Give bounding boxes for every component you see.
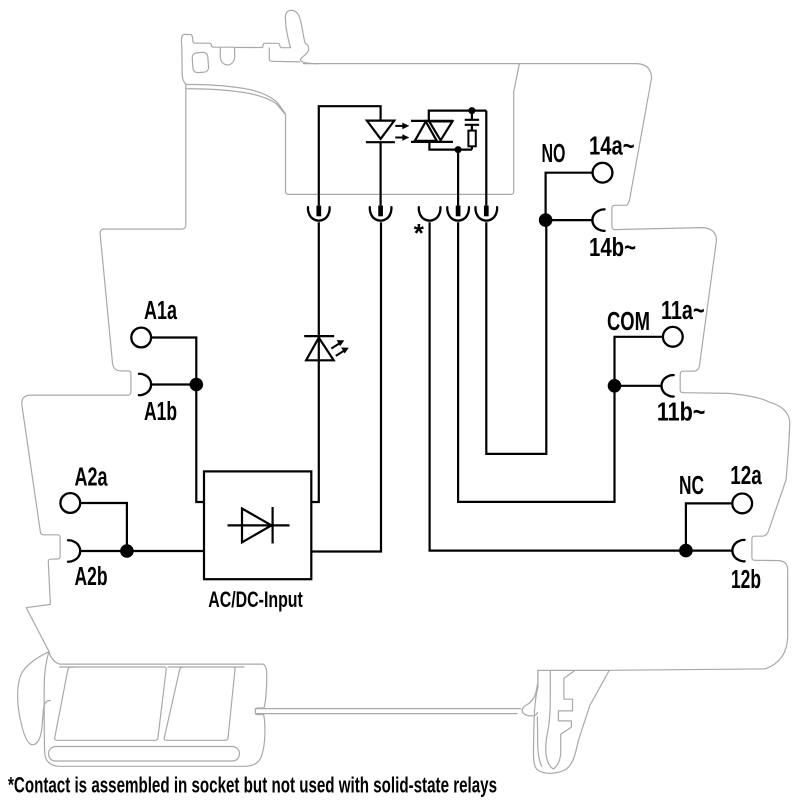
arrow opto 1 [395,125,403,127]
triac triangle down [429,121,452,140]
wire A1 junction down to AC/DC box [196,385,204,503]
svg-text:A2b: A2b [75,563,108,591]
wire triac top terminal [429,111,487,121]
triac triangle up [415,122,437,141]
terminal 11a circle [663,327,683,347]
housing: clip underside sweep curve lower [186,89,285,115]
wire AC/DC box to pin 2 [311,222,381,551]
junction snubber top [468,107,475,114]
socket contact pin 1 cup [308,207,330,220]
svg-text:12b: 12b [731,566,761,594]
svg-text:AC/DC-Input: AC/DC-Input [208,587,303,612]
terminal screw circles [60,163,752,514]
socket contact pin 5 cup [475,207,497,220]
housing: top edge [304,63,638,65]
half-cup terminals [68,209,745,561]
housing: left side profile with terminal tiers [22,84,186,651]
junction A1 [190,378,204,392]
housing: DIN clip at top of tower [181,10,318,84]
svg-text:12a: 12a [730,462,762,490]
opto LED triangle [367,121,394,139]
pin blade 4 [456,206,461,217]
wire to pin 5 from triac top [485,111,487,206]
arrow LED emit 1 [331,344,339,349]
triac bottom rail [411,141,453,143]
pin blade 5 [484,206,489,217]
SSR internal: wire pin1 up and across to opto LED [319,106,381,205]
wire NC junction to 12a [686,503,733,550]
housing: clip mounting tooth [220,47,235,65]
wire A2b to junction to AC/DC box [80,550,204,552]
wire NO junction to 14a [546,173,593,220]
wire COM junction to 11b [615,385,662,387]
socket contact pin 2 cup [370,207,392,220]
wire NC junction to 12b [686,549,732,551]
junction NC/12 [679,544,693,558]
snubber capacitor leads [471,111,473,131]
svg-text:NO: NO [542,140,566,168]
wire A2a to junction [80,503,127,551]
svg-text:*: * [414,218,425,248]
socket contact cups [308,207,497,220]
black circuit [80,106,732,579]
housing: right side profile with terminal tiers [533,64,789,774]
housing: left foot ear hook [18,652,51,745]
opto light arrows [331,123,409,356]
svg-text:A1a: A1a [144,297,178,325]
DIN rail upper edge [255,708,520,710]
junction A2 [120,544,134,558]
triac top rail [411,120,453,122]
wire A1a to junction [151,338,196,385]
wire COM junction to 11a [615,337,663,386]
terminal A1a circle [131,328,151,348]
terminal 14b cup [592,209,604,230]
rectifier diode horizontal lead [228,524,290,526]
housing: solid-state relay module box [277,64,520,195]
wire pin 5 to NO junction [486,220,546,454]
rectifier diode cathode bar [272,507,274,544]
indicator LED triangle [306,338,334,361]
terminal 14a circle [593,163,613,183]
terminal 11b cup [661,375,673,396]
svg-text:14b~: 14b~ [589,234,636,262]
wire A1b to junction [151,383,196,385]
pin blade 1 [316,206,321,217]
svg-text:*Contact is assembled in socke: *Contact is assembled in socket but not … [8,773,497,798]
svg-text:NC: NC [679,472,704,500]
indicator LED cathode bar [304,335,334,337]
wire pin 4 to COM junction [458,222,614,502]
junction NO/14 [539,213,553,227]
opto LED cathode bar [366,141,395,143]
snubber capacitor plates [465,120,479,125]
housing: left mounting foot [44,651,267,766]
socket contact pin 3 cup (unused, *) [419,207,441,220]
resistor bottom lead [471,146,473,149]
DIN rail lower edge [255,713,517,715]
socket contact pin 4 cup [447,207,469,220]
arrow opto 2 [395,137,403,139]
arrow LED emit 2 [336,351,344,356]
wire AC/DC box to pin 1 (with indicator LED) [311,222,319,502]
snubber resistor [468,131,475,147]
junction snubber bottom [455,146,462,153]
svg-text:COM: COM [607,308,650,336]
terminal A2b cup [68,540,80,561]
svg-text:14a~: 14a~ [589,133,635,161]
AC/DC input rectifier box [204,471,311,579]
housing: clip underside sweep curve upper [186,84,277,102]
wire opto LED cathode down to pin 2 [380,142,382,205]
housing: left foot bottom slot [49,747,240,762]
wire to pin 4 from triac bottom [457,150,459,206]
svg-text:11b~: 11b~ [657,399,706,427]
housing: clip inner hole [192,52,209,73]
terminal A1b cup [139,374,151,395]
wire NO junction to 14b [546,219,592,221]
housing: right clamp leg inner line [546,671,554,769]
junction COM/11 [608,379,622,393]
rectifier diode D1 [242,509,272,543]
svg-text:A2a: A2a [75,464,109,492]
svg-text:A1b: A1b [144,398,177,426]
housing: clip ledge underline [269,48,299,62]
housing: right clamp leg inner zigzag [554,671,574,769]
housing: foot edge ticks [60,666,245,668]
terminal 12b cup [732,540,744,561]
svg-text:11a~: 11a~ [661,297,705,325]
terminal A2a circle [60,493,80,513]
housing: left foot window 2 [164,667,235,740]
pin blade 2 [378,206,383,217]
housing: right clamp strip edge with rail hook [522,671,538,716]
terminal 12a circle [732,494,752,514]
wire pin 3 to NC junction [430,222,686,550]
housing: right clamp strip lower edge [537,717,541,766]
wire triac bottom terminal [429,142,472,150]
relay pin blades in contacts 1,2,4,5 [316,206,488,217]
housing: left foot window 1 [55,667,167,740]
